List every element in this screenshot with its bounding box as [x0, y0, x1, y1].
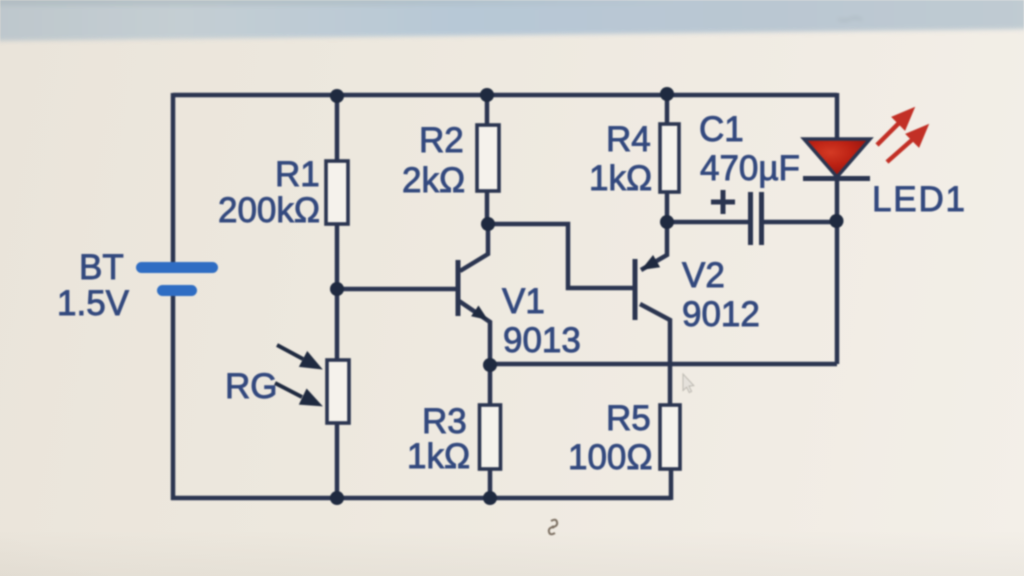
svg-text:V1: V1 [502, 282, 545, 321]
svg-text:C1: C1 [699, 110, 744, 149]
svg-text:BT: BT [79, 248, 124, 287]
svg-text:RG: RG [225, 367, 278, 406]
svg-text:R5: R5 [606, 399, 651, 438]
svg-text:R3: R3 [422, 402, 467, 441]
svg-text:200kΩ: 200kΩ [218, 191, 320, 230]
svg-text:100Ω: 100Ω [568, 438, 653, 477]
svg-text:2kΩ: 2kΩ [402, 161, 465, 200]
svg-text:V2: V2 [682, 256, 725, 295]
svg-text:1kΩ: 1kΩ [407, 437, 470, 476]
svg-text:1.5V: 1.5V [57, 284, 130, 323]
svg-text:R4: R4 [606, 120, 651, 159]
svg-text:LED1: LED1 [872, 180, 965, 219]
svg-text:9013: 9013 [503, 321, 581, 360]
svg-text:1kΩ: 1kΩ [589, 159, 652, 198]
svg-text:470µF: 470µF [700, 149, 800, 188]
svg-text:R1: R1 [275, 155, 320, 194]
svg-text:9012: 9012 [682, 295, 760, 334]
svg-text:R2: R2 [419, 121, 464, 160]
